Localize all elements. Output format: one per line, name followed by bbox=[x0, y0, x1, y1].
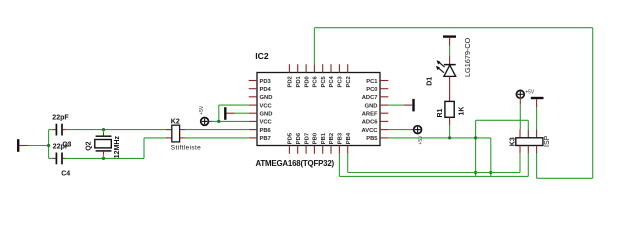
junction V7 on PB4 line bbox=[489, 171, 492, 174]
C3 designator label (overlapping) bbox=[62, 141, 71, 148]
C4 designator label bbox=[61, 170, 70, 177]
svg-text:PB3: PB3 bbox=[338, 132, 344, 144]
wire gnd to C3/C4 junction bbox=[28, 145, 49, 147]
svg-text:VCC: VCC bbox=[260, 120, 273, 126]
svg-text:AREF: AREF bbox=[362, 112, 378, 118]
svg-text:PB2: PB2 bbox=[329, 133, 335, 144]
IC2 designator label bbox=[255, 51, 269, 61]
svg-text:LG1679-CO: LG1679-CO bbox=[463, 37, 472, 77]
ground symbol left of C3/C4 bbox=[18, 139, 28, 152]
wire V7 from PB5 end down bbox=[490, 138, 492, 177]
svg-text:VCC: VCC bbox=[260, 103, 273, 109]
IC top pin name labels (rotated) bbox=[288, 75, 352, 87]
resistor R1 bbox=[445, 101, 454, 125]
Stiftleiste value label bbox=[171, 145, 201, 152]
capacitor C3 bbox=[49, 124, 66, 136]
svg-text:PB1: PB1 bbox=[321, 132, 327, 144]
svg-text:ADC6: ADC6 bbox=[362, 120, 379, 126]
IC right pin stubs bbox=[380, 81, 388, 138]
1K value label (rotated) bbox=[458, 107, 465, 116]
svg-text:+5V: +5V bbox=[199, 105, 205, 115]
+5V supply symbol near K2 bbox=[201, 118, 213, 126]
IC bottom pin name labels (rotated) bbox=[288, 132, 352, 144]
+5V supply symbol near AVCC bbox=[412, 126, 422, 134]
svg-text:PC0: PC0 bbox=[366, 87, 377, 93]
ground symbol left of IC bbox=[225, 107, 235, 120]
svg-text:1K: 1K bbox=[458, 107, 465, 116]
svg-text:PC5: PC5 bbox=[321, 75, 327, 87]
svg-text:C3: C3 bbox=[62, 141, 71, 148]
junction +5V/VCC bbox=[217, 120, 220, 123]
svg-text:R1: R1 bbox=[437, 108, 444, 117]
wire vertical C3-C4 left rail bbox=[48, 130, 50, 159]
svg-text:PC4: PC4 bbox=[329, 75, 335, 87]
22pF value label of C3 bbox=[52, 115, 69, 122]
wire PB5 net H1 bbox=[388, 137, 491, 139]
junction V6/PB5 bbox=[474, 136, 477, 139]
svg-text:PD3: PD3 bbox=[260, 79, 272, 85]
svg-text:ISP: ISP bbox=[544, 135, 551, 147]
LED D1 bbox=[436, 56, 456, 101]
svg-text:PB5: PB5 bbox=[366, 136, 378, 142]
pin header K2 bbox=[166, 125, 185, 142]
svg-text:GND: GND bbox=[365, 103, 378, 109]
svg-text:Q2: Q2 bbox=[86, 141, 93, 150]
svg-text:GND: GND bbox=[260, 95, 273, 101]
svg-text:PD0: PD0 bbox=[304, 76, 310, 87]
svg-text:PD1: PD1 bbox=[296, 75, 302, 87]
Q2 designator label (rotated) bbox=[86, 141, 93, 150]
svg-text:AVCC: AVCC bbox=[362, 128, 379, 134]
capacitor C4 bbox=[49, 153, 66, 165]
wire top xtal rail C3 to K2 bbox=[66, 129, 167, 131]
svg-text:GND: GND bbox=[260, 112, 273, 118]
+5V label near K2 (rotated) bbox=[199, 105, 205, 115]
svg-text:12MHz: 12MHz bbox=[114, 136, 121, 159]
svg-text:PB0: PB0 bbox=[313, 133, 319, 144]
ground symbol above LED bbox=[443, 37, 456, 47]
R1 designator label (rotated) bbox=[437, 108, 444, 117]
wire AVCC to +5V bbox=[388, 129, 411, 131]
wire gnd to LED bbox=[449, 46, 451, 56]
IC left pin stubs bbox=[249, 81, 257, 138]
svg-text:PD7: PD7 bbox=[304, 133, 310, 144]
K2 designator label bbox=[171, 118, 180, 125]
svg-text:Stiftleiste: Stiftleiste bbox=[171, 145, 201, 152]
wire K2 to IC PB6 bbox=[185, 129, 248, 131]
22pF value label of C4 bbox=[53, 144, 70, 151]
wire K2 to IC PB7 bbox=[185, 137, 248, 139]
ISP value label (rotated) bbox=[544, 135, 551, 147]
wire +5V to ISP pin bbox=[519, 104, 521, 130]
svg-text:D1: D1 bbox=[426, 77, 433, 86]
svg-text:PD2: PD2 bbox=[288, 76, 294, 87]
crystal Q2 bbox=[95, 130, 112, 159]
+5V label above ISP bbox=[525, 90, 535, 96]
+5V supply symbol above ISP bbox=[516, 90, 524, 104]
svg-text:ATMEGA168(TQFP32): ATMEGA168(TQFP32) bbox=[256, 159, 335, 168]
junction xtal top bbox=[102, 128, 105, 131]
IC top pin stubs bbox=[289, 64, 347, 72]
IC right pin name labels bbox=[362, 79, 379, 142]
svg-text:K2: K2 bbox=[171, 118, 180, 125]
ATMEGA168(TQFP32) value label bbox=[256, 159, 335, 168]
junction R1/PB5 bbox=[448, 136, 451, 139]
12MHz value label (rotated) bbox=[114, 136, 121, 159]
svg-text:PC6: PC6 bbox=[313, 75, 319, 87]
wire RESET top rail bbox=[314, 28, 592, 179]
junction V6 on PB4 line bbox=[474, 171, 477, 174]
wire PB3 to ISP bbox=[339, 153, 528, 176]
svg-text:PB7: PB7 bbox=[260, 136, 271, 142]
svg-text:PB4: PB4 bbox=[346, 132, 352, 144]
svg-text:PD5: PD5 bbox=[288, 132, 294, 144]
wire gnd to ISP pin bbox=[536, 107, 538, 129]
ground symbol right of IC bbox=[404, 99, 414, 112]
wire SCK link V6 bbox=[476, 120, 529, 176]
wire IC GND pin to ground right bbox=[388, 104, 404, 106]
K3 designator label (rotated) bbox=[510, 137, 517, 146]
wire R1 to PB5 net bbox=[449, 126, 451, 138]
svg-text:PC1: PC1 bbox=[366, 79, 378, 85]
svg-text:C4: C4 bbox=[61, 170, 70, 177]
IC bottom pin stubs bbox=[289, 146, 347, 154]
junction xtal bottom bbox=[102, 157, 105, 160]
wire bottom xtal rail C4 to corner bbox=[66, 138, 167, 159]
svg-text:PD4: PD4 bbox=[260, 87, 272, 93]
LG1679-CO value label (rotated) bbox=[463, 37, 472, 77]
svg-text:+5V: +5V bbox=[418, 135, 424, 145]
svg-text:K3: K3 bbox=[510, 137, 517, 146]
+5V label near AVCC (rotated) bbox=[418, 135, 424, 145]
svg-text:PB6: PB6 bbox=[260, 128, 272, 134]
svg-text:PC3: PC3 bbox=[338, 75, 344, 87]
wire PB4 to ISP bbox=[348, 153, 520, 172]
svg-text:+5V: +5V bbox=[525, 90, 535, 96]
connector K3 (ISP) bbox=[516, 130, 543, 154]
svg-text:PD6: PD6 bbox=[296, 132, 302, 144]
svg-text:ADC7: ADC7 bbox=[362, 95, 378, 101]
IC IC2 ATMEGA168 body bbox=[257, 73, 380, 146]
ground symbol above ISP bbox=[531, 98, 544, 107]
IC left pin name labels bbox=[260, 79, 273, 142]
svg-text:IC2: IC2 bbox=[255, 51, 269, 61]
wire gnd to IC GND pin bbox=[235, 112, 249, 114]
D1 designator label (rotated) bbox=[426, 77, 433, 86]
svg-text:PC2: PC2 bbox=[346, 76, 352, 87]
wire +5V to VCC junction bbox=[212, 105, 248, 121]
svg-text:22pF: 22pF bbox=[52, 115, 69, 122]
junction at gnd/C3/C4 bbox=[47, 144, 50, 147]
